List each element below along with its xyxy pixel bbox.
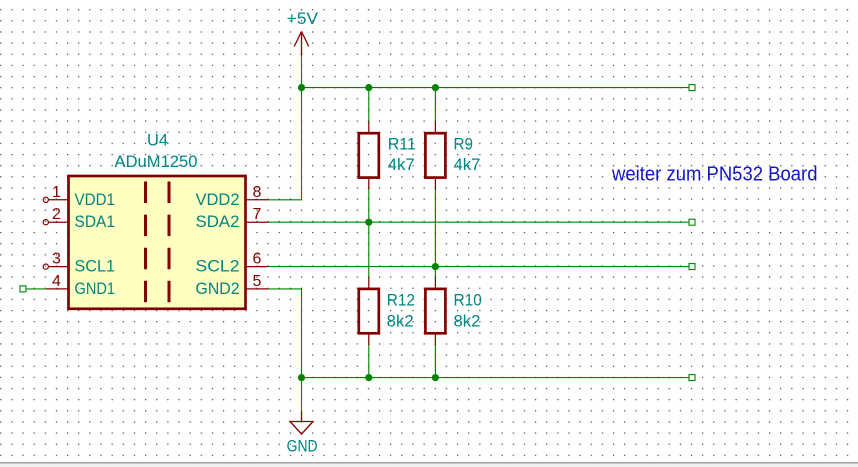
reference label U4 [147, 132, 168, 150]
pin 7 SDA2 [246, 221, 269, 223]
svg-text:R9: R9 [454, 135, 474, 153]
junction top rail at +5V column [298, 84, 305, 91]
wire GND2 pin to GND column [268, 289, 302, 378]
wire SCL2 row [268, 266, 692, 268]
svg-text:7: 7 [253, 206, 262, 223]
net label GND [287, 438, 318, 456]
pin name SCL2 [196, 257, 240, 276]
pin number 7 [253, 206, 262, 223]
wire GND1 pin to left end [26, 288, 46, 290]
svg-text:U4: U4 [147, 132, 168, 150]
pin number 6 [253, 251, 262, 268]
ground symbol [290, 412, 313, 434]
svg-text:SDA2: SDA2 [196, 212, 240, 231]
pin 4 GND1 [46, 288, 68, 290]
wire end square GND1 left [20, 286, 26, 292]
resistor R11 [359, 122, 379, 190]
junction bottom rail at R12 column [365, 374, 372, 381]
pin name GND2 [196, 279, 240, 298]
op-amp-style IC body U4 [69, 176, 246, 309]
pin number 1 [52, 184, 61, 201]
svg-text:R12: R12 [387, 291, 415, 309]
note text weiter zum PN532 Board [611, 163, 817, 186]
value label 8k2 (R10) [454, 312, 481, 330]
pin name SDA2 [196, 212, 240, 231]
wire +5V to top rail [301, 53, 303, 88]
value label ADuM1250 [115, 153, 198, 171]
junction bottom rail at R10 column [432, 374, 439, 381]
svg-text:2: 2 [52, 206, 61, 223]
pin number 5 [253, 273, 262, 290]
svg-text:VDD2: VDD2 [196, 190, 240, 209]
pin 3 SCL1 [43, 264, 68, 269]
wire SDA2 row [268, 221, 692, 223]
pin number 3 [52, 251, 61, 268]
svg-text:5: 5 [253, 273, 262, 290]
svg-text:4: 4 [52, 273, 61, 290]
svg-text:R10: R10 [454, 291, 482, 309]
pin 8 VDD2 [246, 199, 269, 201]
svg-text:GND: GND [287, 438, 318, 456]
wire R12 bottom to bottom rail [368, 344, 370, 378]
pin number 8 [253, 184, 262, 201]
pin name GND1 [75, 279, 116, 298]
wire R10 top from SCL2 [434, 267, 436, 278]
pin name VDD2 [196, 190, 240, 209]
svg-text:R11: R11 [388, 135, 416, 153]
svg-text:6: 6 [253, 251, 262, 268]
svg-text:8k2: 8k2 [387, 312, 414, 330]
pin name SDA1 [75, 212, 116, 231]
svg-text:8: 8 [253, 184, 262, 201]
reference label R11 [388, 135, 416, 153]
window bottom edge [0, 463, 858, 467]
value label 4k7 (R11) [388, 156, 415, 174]
junction SDA2 at R11/R12 column [365, 219, 372, 226]
wire end square SDA2 [689, 219, 695, 225]
junction SCL2 at R9/R10 column [432, 263, 439, 270]
pin name VDD1 [75, 190, 116, 209]
value label 4k7 (R9) [454, 156, 481, 174]
pin 5 GND2 [246, 288, 269, 290]
svg-text:SCL1: SCL1 [75, 257, 116, 276]
svg-text:4k7: 4k7 [388, 156, 415, 174]
svg-text:ADuM1250: ADuM1250 [115, 153, 198, 171]
svg-text:GND1: GND1 [75, 279, 116, 298]
pin 1 VDD1 [43, 197, 68, 202]
svg-text:8k2: 8k2 [454, 312, 481, 330]
svg-text:VDD1: VDD1 [75, 190, 116, 209]
power +5V symbol [294, 32, 309, 56]
pin number 4 [52, 273, 61, 290]
svg-text:SCL2: SCL2 [196, 257, 240, 276]
svg-text:GND2: GND2 [196, 279, 240, 298]
reference label R12 [387, 291, 415, 309]
svg-text:3: 3 [52, 251, 61, 268]
value label 8k2 (R12) [387, 312, 414, 330]
wire R12 top from SDA2 [368, 222, 370, 278]
wire VDD2 pin to +5V column [268, 88, 302, 200]
pin name SCL1 [75, 257, 116, 276]
isolation barrier dashed line right [168, 182, 171, 306]
wire end square SCL2 [689, 264, 695, 270]
isolation barrier dashed line left [144, 182, 147, 306]
svg-text:weiter zum PN532 Board: weiter zum PN532 Board [611, 163, 817, 186]
junction top rail at R9 column [432, 84, 439, 91]
resistor R12 [359, 277, 379, 345]
wire bottom rail [302, 377, 693, 379]
svg-text:1: 1 [52, 184, 61, 201]
svg-text:4k7: 4k7 [454, 156, 481, 174]
reference label R10 [454, 291, 482, 309]
wire end square bottom rail [689, 375, 695, 381]
wire R9 top [434, 88, 436, 123]
junction bottom rail at GND column [298, 374, 305, 381]
svg-text:SDA1: SDA1 [75, 212, 116, 231]
wire R10 bottom to bottom rail [434, 344, 436, 378]
resistor R9 [425, 122, 445, 190]
wire GND drop [301, 378, 303, 413]
pin 2 SDA1 [43, 220, 68, 225]
wire R11 top [368, 88, 370, 123]
wire R9 bottom to SCL2 [434, 188, 436, 266]
resistor R10 [425, 277, 445, 345]
wire R11 bottom to SDA2 [368, 188, 370, 222]
reference label R9 [454, 135, 474, 153]
wire end square top rail [689, 85, 695, 91]
pin 6 SCL2 [246, 266, 269, 268]
wire top rail [302, 87, 693, 89]
pin number 2 [52, 206, 61, 223]
net label +5V [287, 9, 319, 28]
junction top rail at R11 column [365, 84, 372, 91]
svg-text:+5V: +5V [287, 9, 319, 28]
